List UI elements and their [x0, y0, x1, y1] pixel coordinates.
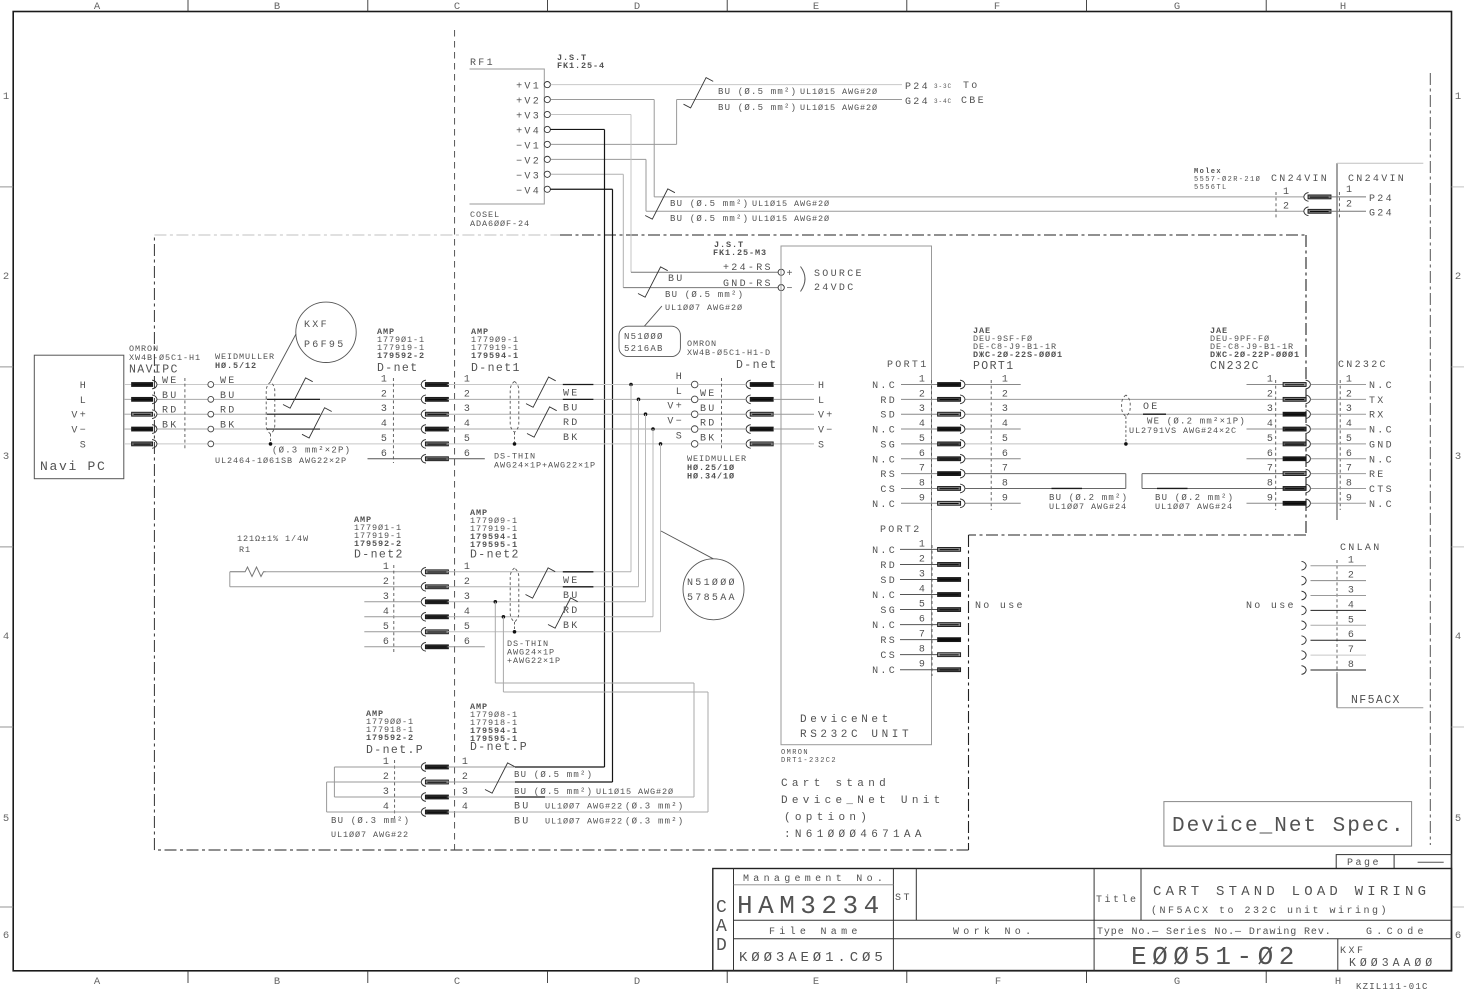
- svg-text:L: L: [80, 396, 88, 407]
- wire D-net2 row4 to V- drop: [448, 616, 653, 618]
- wire mark slash source pair: [638, 267, 668, 297]
- contact D-net2 1: [421, 567, 426, 576]
- svg-text:3: 3: [464, 592, 472, 603]
- svg-text:A: A: [716, 917, 727, 937]
- svg-text:G24: G24: [1369, 209, 1394, 220]
- svg-text:File Name: File Name: [769, 926, 862, 938]
- wire NaviPC L: [124, 398, 132, 400]
- svg-text:FK1.25-M3: FK1.25-M3: [713, 248, 767, 258]
- svg-text:D-net.P: D-net.P: [470, 741, 528, 754]
- svg-text:3: 3: [383, 592, 391, 603]
- wire D-net2 row6 stub: [448, 646, 485, 648]
- svg-text:−: −: [787, 284, 795, 295]
- svg-text:UL1ØØ7 AWG#2Ø: UL1ØØ7 AWG#2Ø: [665, 303, 743, 313]
- wire PORT2 stub 8: [900, 654, 938, 656]
- svg-text:DRT1-232C2: DRT1-232C2: [781, 757, 837, 765]
- svg-text:RD: RD: [563, 418, 580, 429]
- contact CNLAN 4: [1302, 606, 1307, 615]
- wire OMRON D-net L into unit: [698, 398, 746, 400]
- svg-text:D-net1: D-net1: [471, 362, 521, 375]
- svg-text:4: 4: [919, 419, 927, 430]
- svg-text:RF1: RF1: [470, 58, 495, 69]
- svg-text:24VDC: 24VDC: [814, 283, 856, 294]
- svg-text:C: C: [716, 898, 727, 918]
- contact PORT1 4: [938, 427, 961, 431]
- svg-text:BK: BK: [563, 621, 580, 632]
- svg-text:6: 6: [464, 637, 472, 648]
- svg-text:RD: RD: [880, 561, 897, 572]
- svg-text:N.C: N.C: [872, 500, 897, 511]
- svg-text:4: 4: [1267, 419, 1275, 430]
- wire S drop to D-net2 row5: [660, 444, 662, 632]
- title block outer: [713, 869, 1452, 971]
- svg-text:H: H: [1335, 976, 1341, 988]
- svg-text:121Ω±1% 1/4W: 121Ω±1% 1/4W: [237, 534, 309, 544]
- contact D-net2 6: [421, 642, 426, 651]
- contact D-net2 3: [421, 597, 426, 606]
- wire OMRON D-net H into unit: [698, 384, 746, 386]
- svg-text:3: 3: [3, 451, 9, 463]
- svg-text:ADA6ØØF-24: ADA6ØØF-24: [470, 219, 530, 229]
- svg-text:B: B: [274, 976, 280, 988]
- wire D-net.P row1-row3 left loop: [334, 766, 421, 768]
- svg-text:+AWG22×1P: +AWG22×1P: [507, 656, 561, 666]
- terminal RF1 +V3: [544, 111, 550, 117]
- svg-text:L: L: [818, 396, 826, 407]
- contact PORT1 8: [938, 487, 961, 491]
- svg-text:D: D: [634, 1, 640, 13]
- svg-text:+V4: +V4: [516, 126, 541, 137]
- svg-text:BU (Ø.3 mm²): BU (Ø.3 mm²): [331, 816, 410, 826]
- wire PORT1 stub 2: [901, 398, 938, 400]
- svg-text:N.C: N.C: [1369, 381, 1394, 392]
- svg-text:N.C: N.C: [872, 381, 897, 392]
- wire D-net2 row1 to H drop: [448, 571, 631, 573]
- wire D-net.P row2-row4 left loop: [327, 781, 422, 783]
- junction L drop: [637, 398, 641, 402]
- wire S D-net1 to OMRON D-net: [448, 443, 692, 445]
- contact PORT2 3: [938, 578, 961, 582]
- svg-text:N.C: N.C: [872, 455, 897, 466]
- svg-text:BU: BU: [514, 817, 531, 828]
- svg-text:2: 2: [1346, 200, 1354, 211]
- terminal OMRON D-net L: [691, 396, 698, 403]
- contact NAVIPC 2: [132, 397, 153, 401]
- wire SG-GND row5: [966, 443, 1284, 445]
- contact D-net/D-net1 5: [421, 440, 426, 449]
- svg-text:D-net: D-net: [377, 362, 419, 375]
- svg-text:3-3C: 3-3C: [934, 83, 952, 90]
- svg-text:6: 6: [919, 615, 927, 626]
- svg-text:Molex: Molex: [1194, 168, 1222, 176]
- svg-text:6: 6: [919, 449, 927, 460]
- svg-text:GND-RS: GND-RS: [723, 279, 773, 290]
- svg-text:BU: BU: [514, 802, 531, 813]
- svg-text:SG: SG: [880, 606, 897, 617]
- svg-text:+24-RS: +24-RS: [723, 263, 773, 274]
- svg-text:HØ.5/12: HØ.5/12: [215, 361, 257, 371]
- emphasized pair segments Navi rows2-4: [267, 398, 320, 400]
- svg-text:F: F: [995, 976, 1001, 988]
- svg-text:5556TL: 5556TL: [1194, 184, 1228, 192]
- wire CNLAN stub 7: [1311, 654, 1367, 656]
- wire OMRON D-net S into unit: [698, 443, 746, 445]
- svg-text:EØØ51-Ø2: EØØ51-Ø2: [1131, 942, 1300, 972]
- svg-text:UL1ØØ7 AWG#24: UL1ØØ7 AWG#24: [1049, 502, 1127, 512]
- wire D-net2 row3 to D-net.P row3: [494, 602, 496, 683]
- contact NAVIPC 1: [132, 383, 153, 387]
- contact PORT1 9: [938, 501, 961, 505]
- terminal OMRON D-net V−: [691, 426, 698, 433]
- wire PORT1 N.C stubs right of contact: [966, 384, 1021, 386]
- svg-text:WE: WE: [162, 376, 179, 387]
- svg-text:P24: P24: [905, 82, 930, 93]
- wire V− drop to D-net2 row4: [652, 429, 654, 617]
- svg-text:1: 1: [383, 757, 391, 768]
- svg-text:BU: BU: [220, 391, 237, 402]
- svg-text:HØ.34/1Ø: HØ.34/1Ø: [687, 472, 735, 482]
- svg-text:P6F95: P6F95: [304, 340, 346, 351]
- svg-text:2: 2: [919, 389, 927, 400]
- svg-text:UL2791VS AWG#24×2C: UL2791VS AWG#24×2C: [1129, 426, 1237, 436]
- svg-text:BU (Ø.5 mm²): BU (Ø.5 mm²): [665, 290, 744, 300]
- svg-text:3: 3: [1267, 404, 1275, 415]
- svg-text:BU: BU: [700, 404, 717, 415]
- svg-text:SD: SD: [880, 411, 897, 422]
- svg-text:2: 2: [1348, 571, 1356, 582]
- wire CN24VIN P24 stub: [1329, 196, 1367, 198]
- wire SD-RX row3: [966, 413, 1284, 415]
- wire D-net2 row3 to V+ drop: [448, 601, 646, 603]
- svg-text:CBE: CBE: [961, 96, 986, 107]
- svg-text:H: H: [1340, 1, 1346, 13]
- svg-text:3: 3: [381, 404, 389, 415]
- svg-text:9: 9: [919, 493, 927, 504]
- contact PORT1 1: [938, 383, 961, 387]
- contact CNLAN 1: [1302, 561, 1307, 570]
- contact D-net/D-net1 3: [421, 410, 426, 419]
- junction D-net2 row4 branch: [502, 615, 506, 619]
- svg-text:2: 2: [381, 389, 389, 400]
- junction cable shield on S: [269, 442, 273, 446]
- svg-text:4: 4: [381, 419, 389, 430]
- svg-text:UL1ØØ7 AWG#22: UL1ØØ7 AWG#22: [545, 817, 623, 827]
- svg-text:7: 7: [1348, 645, 1356, 656]
- svg-text:To: To: [963, 81, 980, 92]
- center construction line (dashed): [454, 30, 456, 850]
- svg-text:G: G: [1174, 1, 1180, 13]
- contact D-net/D-net1 2: [421, 395, 426, 404]
- svg-text:R1: R1: [239, 545, 251, 555]
- svg-text:E: E: [813, 976, 819, 988]
- wire CN232C RE-CTS loopback: [1142, 473, 1283, 475]
- wire CNLAN stub 6: [1311, 639, 1367, 641]
- svg-text:179592-2: 179592-2: [377, 351, 425, 361]
- svg-text:RD: RD: [162, 406, 179, 417]
- wire CN232C N.C stubs: [1247, 384, 1284, 386]
- wire V- D-net1 to OMRON D-net: [448, 428, 692, 430]
- contact NAVIPC 5: [132, 442, 153, 446]
- wire PORT2 stub 1: [900, 548, 938, 550]
- svg-text:4: 4: [1455, 631, 1461, 643]
- svg-text:2: 2: [919, 554, 927, 565]
- wire mark slash D-net2 pair2: [548, 598, 578, 628]
- svg-text:5216AB: 5216AB: [624, 344, 664, 354]
- svg-text:Management No.: Management No.: [743, 874, 887, 885]
- svg-text:V−: V−: [71, 426, 88, 437]
- svg-text:XW4B-Ø5C1-H1-D: XW4B-Ø5C1-H1-D: [687, 348, 771, 358]
- svg-text:CS: CS: [880, 485, 897, 496]
- svg-text:−V1: −V1: [516, 141, 541, 152]
- svg-text:A: A: [94, 1, 101, 13]
- wire CN232C stub 3: [1311, 413, 1367, 415]
- svg-text:WE: WE: [700, 389, 717, 400]
- svg-text:F: F: [994, 1, 1000, 13]
- wire CN232C stub 4: [1311, 428, 1367, 430]
- svg-text:SD: SD: [880, 576, 897, 587]
- wire CNLAN stub 4: [1311, 609, 1367, 611]
- svg-text:(Ø.3 mm²): (Ø.3 mm²): [625, 802, 684, 812]
- contact CN24VIN 2: [1304, 207, 1309, 216]
- svg-text:+V2: +V2: [516, 97, 541, 108]
- svg-text:KXF: KXF: [1340, 946, 1366, 957]
- svg-text:N51ØØØ: N51ØØØ: [624, 332, 664, 342]
- svg-text:8: 8: [1267, 478, 1275, 489]
- frame row ticks left: [0, 186, 13, 188]
- terminal OMRON D-net H: [691, 381, 698, 388]
- terminal RF1 +V1: [544, 82, 550, 88]
- wire PORT1 stub 3: [901, 413, 938, 415]
- svg-text:9: 9: [1267, 493, 1275, 504]
- svg-text:BK: BK: [162, 421, 179, 432]
- svg-text:V+: V+: [71, 411, 88, 422]
- svg-text:−V4: −V4: [516, 186, 541, 197]
- wire +V4 (BU 0.5mm2) down to D-net.P pin1: [550, 128, 604, 130]
- svg-text:4: 4: [464, 419, 472, 430]
- svg-text:−V2: −V2: [516, 156, 541, 167]
- NF5ACX unit boundary (dash-dot): [1429, 73, 1431, 845]
- wire NaviPC H: [124, 384, 132, 386]
- svg-text:S: S: [818, 440, 826, 451]
- svg-text:+V3: +V3: [516, 112, 541, 123]
- wire -V1 to G24 CBE: [550, 143, 676, 145]
- svg-text:3-4C: 3-4C: [934, 98, 952, 105]
- svg-text:D: D: [716, 936, 727, 956]
- contact CN232C 9: [1283, 501, 1306, 505]
- svg-text:D-net2: D-net2: [354, 549, 404, 562]
- contact CN24VIN 1: [1304, 193, 1309, 202]
- svg-text:1: 1: [383, 562, 391, 573]
- svg-text:7: 7: [1267, 464, 1275, 475]
- svg-text:179594-1: 179594-1: [471, 351, 519, 361]
- svg-text:6: 6: [464, 449, 472, 460]
- contact OMRON D-net 5: [746, 440, 751, 449]
- wire mark slash D-net2 pair1: [526, 568, 556, 598]
- contact D-net.P 1: [421, 763, 426, 772]
- contact CN232C 3: [1283, 412, 1306, 416]
- svg-text:A: A: [94, 976, 101, 988]
- svg-text:1: 1: [1348, 556, 1356, 567]
- svg-text:KXF: KXF: [304, 320, 329, 331]
- svg-text:CN24VIN: CN24VIN: [1348, 174, 1406, 185]
- wire H drop to D-net2 row1: [630, 385, 632, 572]
- svg-text:8: 8: [919, 645, 927, 656]
- terminal RF1 +V2: [544, 96, 550, 102]
- wire D-net.P row4 right: [448, 811, 708, 813]
- svg-text:N51ØØØ: N51ØØØ: [687, 577, 737, 589]
- svg-text:2: 2: [3, 271, 9, 283]
- svg-text:C: C: [454, 1, 460, 13]
- svg-text:3: 3: [1346, 404, 1354, 415]
- svg-text:9: 9: [1002, 493, 1010, 504]
- connector dashes D-net.P col1: [394, 760, 396, 818]
- cable pair marker (Navi side): [266, 382, 275, 434]
- svg-text:CTS: CTS: [1369, 485, 1394, 496]
- wire V+ drop to D-net2 row3: [645, 414, 647, 602]
- wire PORT1 stub 6: [901, 458, 938, 460]
- svg-text:WE: WE: [563, 576, 580, 587]
- wire CN232C stub 7: [1311, 473, 1367, 475]
- svg-text:N.C: N.C: [1369, 426, 1394, 437]
- wire PORT1 RS-CS loopback: [966, 473, 1126, 475]
- svg-text:Page: Page: [1347, 858, 1381, 869]
- contact OMRON D-net 4: [746, 425, 751, 434]
- svg-text:PORT2: PORT2: [880, 525, 922, 536]
- frame row ticks right: [1452, 186, 1464, 188]
- svg-text:2: 2: [1455, 271, 1461, 283]
- wire D-net.P row3 right: [448, 796, 694, 798]
- svg-text:8: 8: [1348, 660, 1356, 671]
- contact CN232C 6: [1283, 457, 1306, 461]
- svg-text:OE: OE: [1143, 402, 1160, 413]
- wire PORT1 stub 1: [901, 384, 938, 386]
- wire mark slash CN24VIN pair: [645, 189, 675, 219]
- svg-text:(option): (option): [784, 812, 871, 824]
- svg-text:V−: V−: [667, 417, 684, 428]
- connector dashes NAVIPC: [184, 378, 186, 449]
- svg-text:+V1: +V1: [516, 82, 541, 93]
- svg-text:2: 2: [1346, 389, 1354, 400]
- svg-text:+: +: [787, 269, 795, 280]
- wire OMRON D-net V+ into unit: [698, 413, 746, 415]
- wire PORT2 stub 7: [900, 639, 938, 641]
- svg-text:8: 8: [1346, 478, 1354, 489]
- svg-text:6: 6: [3, 930, 9, 942]
- contact NAVIPC 4: [132, 427, 153, 431]
- contact CN232C 2: [1283, 397, 1306, 401]
- svg-text:PORT1: PORT1: [973, 360, 1015, 373]
- svg-text:1: 1: [1283, 187, 1291, 198]
- svg-text:BU (Ø.5 mm²): BU (Ø.5 mm²): [514, 770, 593, 780]
- svg-text:N.C: N.C: [872, 426, 897, 437]
- svg-text:5: 5: [1348, 615, 1356, 626]
- svg-text:UL1Ø15 AWG#2Ø: UL1Ø15 AWG#2Ø: [800, 103, 878, 113]
- NF5ACX label: [1337, 707, 1423, 709]
- wire PORT1 stub 4: [901, 428, 938, 430]
- cable pair marker (D-net1): [510, 381, 519, 432]
- svg-text:C: C: [454, 976, 460, 988]
- contact CNLAN 8: [1302, 666, 1307, 675]
- terminal OMRON D-net S: [691, 441, 698, 448]
- svg-text:4: 4: [1346, 419, 1354, 430]
- svg-text:5: 5: [1346, 434, 1354, 445]
- svg-text:V+: V+: [818, 411, 835, 422]
- frame column ticks top: [187, 0, 189, 12]
- contact PORT2 4: [938, 593, 961, 597]
- wire CNLAN stub 1: [1311, 565, 1367, 567]
- svg-text:Device_Net Spec.: Device_Net Spec.: [1172, 815, 1406, 838]
- svg-text:5: 5: [464, 434, 472, 445]
- wire CN232C stub 2: [1311, 398, 1367, 400]
- wire PORT2 stub 6: [900, 624, 938, 626]
- svg-text:5: 5: [383, 622, 391, 633]
- svg-text:H: H: [80, 381, 88, 392]
- svg-text:Cart stand: Cart stand: [781, 778, 890, 790]
- wire D-net.P row1 to +V4: [448, 766, 515, 768]
- svg-text:5: 5: [1267, 434, 1275, 445]
- connector dashes CN232C cable side: [1275, 380, 1277, 510]
- emphasized WE/BU segments D-net2: [563, 571, 594, 573]
- svg-text:BU: BU: [668, 274, 685, 285]
- svg-text:XW4B-Ø5C1-H1: XW4B-Ø5C1-H1: [129, 353, 201, 363]
- svg-text:1: 1: [1346, 185, 1354, 196]
- contact PORT2 6: [938, 623, 961, 627]
- contact PORT2 2: [938, 562, 961, 566]
- contact PORT2 5: [938, 608, 961, 612]
- svg-text:UL1Ø15 AWG#2Ø: UL1Ø15 AWG#2Ø: [800, 87, 878, 97]
- wire CN24VIN G24 stub: [1329, 210, 1367, 212]
- contact D-net.P 4: [421, 808, 426, 817]
- junction V− drop: [651, 427, 655, 431]
- svg-text:4: 4: [1002, 419, 1010, 430]
- wire PORT2 stub 3: [900, 578, 938, 580]
- svg-text:3: 3: [919, 404, 927, 415]
- contact CN232C 5: [1283, 442, 1306, 446]
- terminal RF1 +V4: [544, 126, 550, 132]
- svg-text:WE: WE: [220, 376, 237, 387]
- svg-text:No use: No use: [975, 601, 1025, 612]
- wire NaviPC V+: [124, 413, 132, 415]
- svg-text:5785AA: 5785AA: [687, 593, 737, 604]
- svg-text:5: 5: [1455, 813, 1461, 825]
- svg-text:5: 5: [919, 434, 927, 445]
- svg-text:G: G: [1174, 976, 1180, 988]
- svg-text:6: 6: [1348, 630, 1356, 641]
- svg-text:Title: Title: [1096, 894, 1139, 906]
- contact D-net.P 2: [421, 778, 426, 787]
- emphasized wire segment row8 right: [1157, 487, 1188, 489]
- svg-text:3: 3: [464, 404, 472, 415]
- svg-text:RE: RE: [1369, 470, 1386, 481]
- wire +V3 to SOURCE +: [550, 114, 631, 116]
- wire R1 row2: [230, 586, 421, 588]
- svg-text:DeviceNet: DeviceNet: [800, 714, 892, 726]
- svg-text:N.C: N.C: [872, 546, 897, 557]
- connector dashes PORT1 cable side: [990, 380, 992, 510]
- resistor R1: [230, 567, 266, 577]
- svg-text:5: 5: [464, 622, 472, 633]
- balloon N51000 5785AA: [683, 559, 744, 620]
- svg-text:7: 7: [919, 464, 927, 475]
- wire PORT2 stub 4: [900, 594, 938, 596]
- terminal SOURCE +: [778, 269, 784, 275]
- svg-text:179592-2: 179592-2: [366, 733, 414, 743]
- svg-text:1: 1: [381, 375, 389, 386]
- contact D-net/D-net1 6: [421, 454, 426, 463]
- contact D-net.P 3: [421, 793, 426, 802]
- svg-text:L: L: [676, 387, 684, 398]
- terminal SOURCE -: [778, 285, 784, 291]
